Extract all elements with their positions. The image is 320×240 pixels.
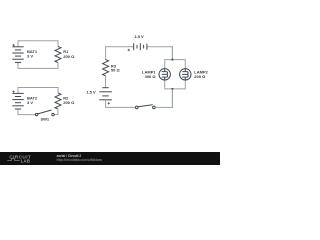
svg-text:200 Ω: 200 Ω (63, 100, 75, 105)
svg-text:3 V: 3 V (27, 53, 33, 58)
node bottom junction (172, 88, 174, 90)
lamp LAMP2 (180, 69, 191, 80)
svg-text:http://circuitlab.com/c/5dkbzw: http://circuitlab.com/c/5dkbzw (57, 158, 103, 162)
battery BAT2 (12, 93, 23, 109)
resistor R3 (103, 60, 109, 76)
plus sign BAT2 (13, 91, 15, 93)
wire bottom-left of circuit 3 (106, 100, 136, 108)
wire R3 to BAT4 (105, 76, 107, 88)
plus sign BAT3 (128, 49, 130, 51)
wire bottom-right of circuit 3 (155, 89, 172, 108)
logo CircuitLab (7, 155, 31, 164)
wire bottom of circuit 1 (18, 62, 58, 68)
svg-text:LAB: LAB (21, 158, 31, 163)
wire lamp bottom bar (165, 80, 186, 89)
wire top of circuit 2 (18, 88, 58, 94)
wire top-left of circuit 3 (106, 47, 134, 60)
svg-text:50 Ω: 50 Ω (111, 68, 121, 73)
svg-text:3 V: 3 V (27, 100, 33, 105)
battery BAT4 (flipped, + at bottom) (99, 88, 112, 100)
svg-text:300 Ω: 300 Ω (145, 74, 157, 79)
svg-text:1.5 V: 1.5 V (86, 90, 96, 95)
svg-text:200 Ω: 200 Ω (63, 54, 75, 59)
plus sign BAT4 (108, 102, 110, 104)
wire top-right of circuit 3 (147, 47, 173, 60)
battery BAT1 (12, 47, 23, 63)
wire bottom-right of circuit 2 (54, 109, 58, 114)
wire bottom-left of circuit 2 (18, 109, 35, 115)
node top junction (172, 59, 174, 61)
resistor R2 (55, 93, 61, 109)
wire lamp feed top (171, 47, 173, 60)
svg-text:SW1: SW1 (40, 117, 49, 122)
battery BAT3 (horizontal, 1.5 V) (134, 43, 147, 50)
svg-text:1.5 V: 1.5 V (134, 34, 144, 39)
plus sign BAT1 (13, 44, 15, 46)
svg-text:zortai / Circuit 2: zortai / Circuit 2 (57, 154, 82, 158)
wire lamp top bar (165, 60, 186, 69)
switch SW1 (35, 110, 54, 116)
resistor R1 (55, 46, 61, 62)
lamp LAMP1 (159, 69, 170, 80)
svg-text:200 Ω: 200 Ω (194, 74, 206, 79)
switch SW2 (136, 105, 156, 109)
wire top of circuit 1 (18, 41, 58, 47)
wire lamp bar to bottom wire (171, 89, 173, 108)
